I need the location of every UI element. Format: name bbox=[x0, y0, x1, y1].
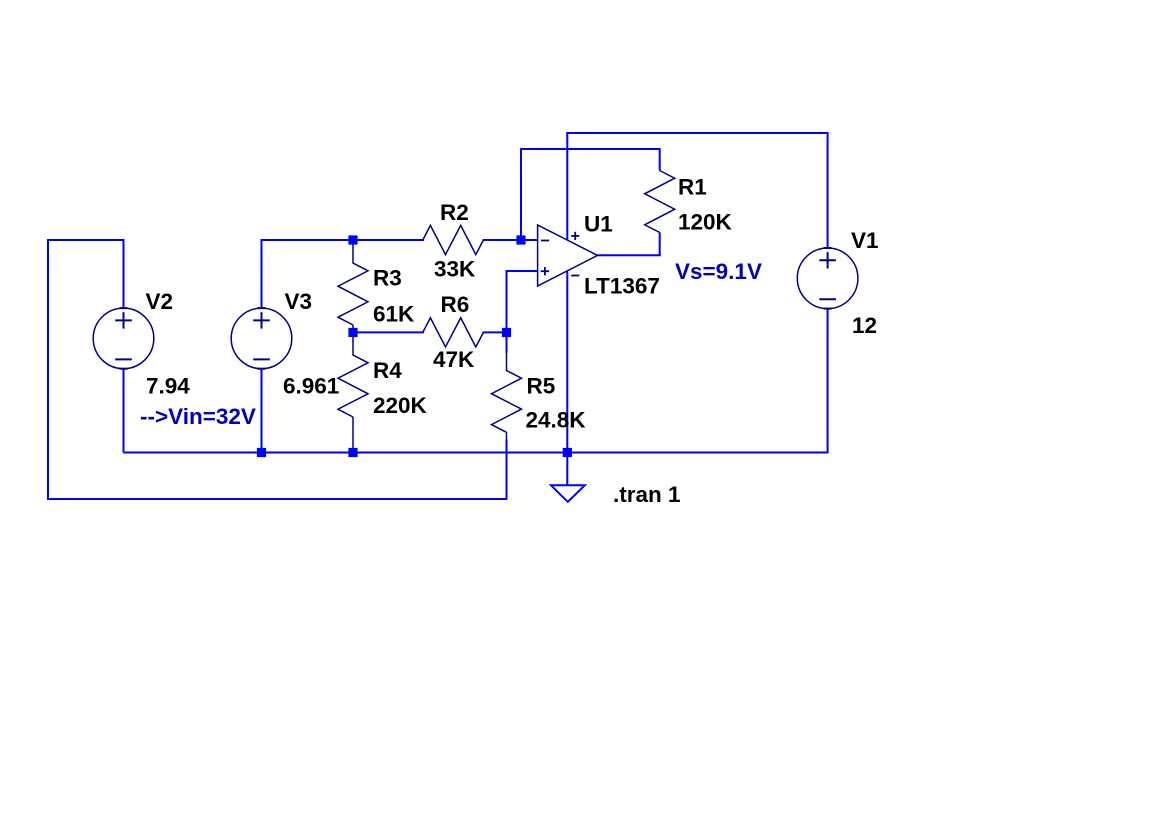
svg-text:R6: R6 bbox=[441, 292, 470, 317]
junction node R3-R4-R6 bbox=[348, 328, 357, 337]
junction V3 minus on ground rail bbox=[257, 448, 266, 457]
wire op-amp V+ supply vertical bbox=[566, 132, 568, 240]
junction node R6-R5-noninv bbox=[502, 328, 511, 337]
wire V2 top horizontal bbox=[48, 239, 124, 241]
junction node inverting input bbox=[516, 235, 525, 244]
junction R4 on ground rail bbox=[348, 448, 357, 457]
wire feedback top horizontal bbox=[520, 148, 660, 150]
wire V1 top lead bbox=[827, 132, 829, 248]
wire R2 right to op-amp inverting input bbox=[483, 239, 538, 241]
wire +input down to node J4 bbox=[506, 270, 508, 333]
wire top rail horizontal bbox=[566, 132, 827, 134]
wire R5 bottom lead bbox=[506, 440, 508, 500]
svg-text:Vs=9.1V: Vs=9.1V bbox=[675, 259, 762, 284]
wire left loop vertical bbox=[47, 239, 49, 500]
wire V3 bottom lead bbox=[261, 369, 263, 453]
wire R1 bottom to output bbox=[659, 233, 661, 257]
svg-text:6.961: 6.961 bbox=[283, 374, 339, 399]
wire V2 bottom lead bbox=[123, 369, 125, 453]
voltage source V2 bbox=[93, 308, 154, 369]
svg-text:V1: V1 bbox=[851, 228, 879, 253]
junction node R2-R3-V3 bbox=[348, 235, 357, 244]
op-amp U1 LT1367 triangle bbox=[538, 225, 598, 286]
svg-text:220K: 220K bbox=[373, 393, 428, 418]
svg-text:U1: U1 bbox=[584, 212, 613, 237]
wire V2 top lead bbox=[123, 239, 125, 308]
ground symbol bbox=[551, 485, 585, 502]
svg-text:R3: R3 bbox=[373, 266, 402, 291]
svg-text:12: 12 bbox=[852, 313, 877, 338]
wire op-amp non-inverting input bbox=[507, 270, 538, 272]
junction ground node bbox=[563, 448, 572, 457]
svg-text:7.94: 7.94 bbox=[146, 374, 190, 399]
svg-text:R5: R5 bbox=[527, 374, 556, 399]
resistor R4 220K (vertical) bbox=[338, 333, 368, 453]
wire ground stub bbox=[566, 452, 568, 485]
wire R6 right to node J4 bbox=[483, 331, 508, 333]
svg-text:33K: 33K bbox=[434, 257, 476, 282]
wire V1 bottom lead bbox=[827, 309, 829, 453]
resistor R5 24.8K (vertical) bbox=[492, 352, 522, 441]
svg-text:R1: R1 bbox=[678, 175, 707, 200]
wire bottom loop horizontal bbox=[47, 498, 507, 500]
svg-text:120K: 120K bbox=[678, 210, 733, 235]
svg-text:R4: R4 bbox=[373, 358, 402, 383]
wire op-amp output bbox=[598, 254, 661, 256]
svg-text:V3: V3 bbox=[285, 289, 313, 314]
wire R1 top lead bbox=[659, 148, 661, 171]
svg-text:-->Vin=32V: -->Vin=32V bbox=[140, 404, 256, 429]
svg-text:LT1367: LT1367 bbox=[584, 274, 660, 299]
svg-text:61K: 61K bbox=[373, 301, 415, 326]
svg-text:R2: R2 bbox=[440, 200, 469, 225]
wire node J4 to R5 bbox=[506, 333, 508, 354]
svg-text:47K: 47K bbox=[433, 347, 475, 372]
resistor R2 33K (horizontal) bbox=[423, 225, 484, 254]
wire feedback vertical at inverting node bbox=[520, 148, 522, 240]
resistor R6 47K (horizontal) bbox=[423, 318, 484, 347]
svg-text:24.8K: 24.8K bbox=[526, 407, 587, 432]
resistor R3 61K (vertical) bbox=[338, 241, 368, 333]
svg-text:V2: V2 bbox=[146, 289, 174, 314]
wire ground rail horizontal bbox=[124, 452, 829, 454]
wire V3-top to R2 left (node with J1) bbox=[262, 239, 425, 241]
wire op-amp V- supply down to ground node bbox=[566, 272, 568, 453]
voltage source V3 bbox=[231, 308, 292, 369]
svg-text:.tran 1: .tran 1 bbox=[613, 482, 681, 507]
wire node J3 to R6 left bbox=[353, 331, 424, 333]
resistor R1 120K (vertical feedback) bbox=[645, 171, 675, 233]
voltage source V1 bbox=[797, 248, 858, 309]
wire V3 top lead bbox=[261, 239, 263, 308]
